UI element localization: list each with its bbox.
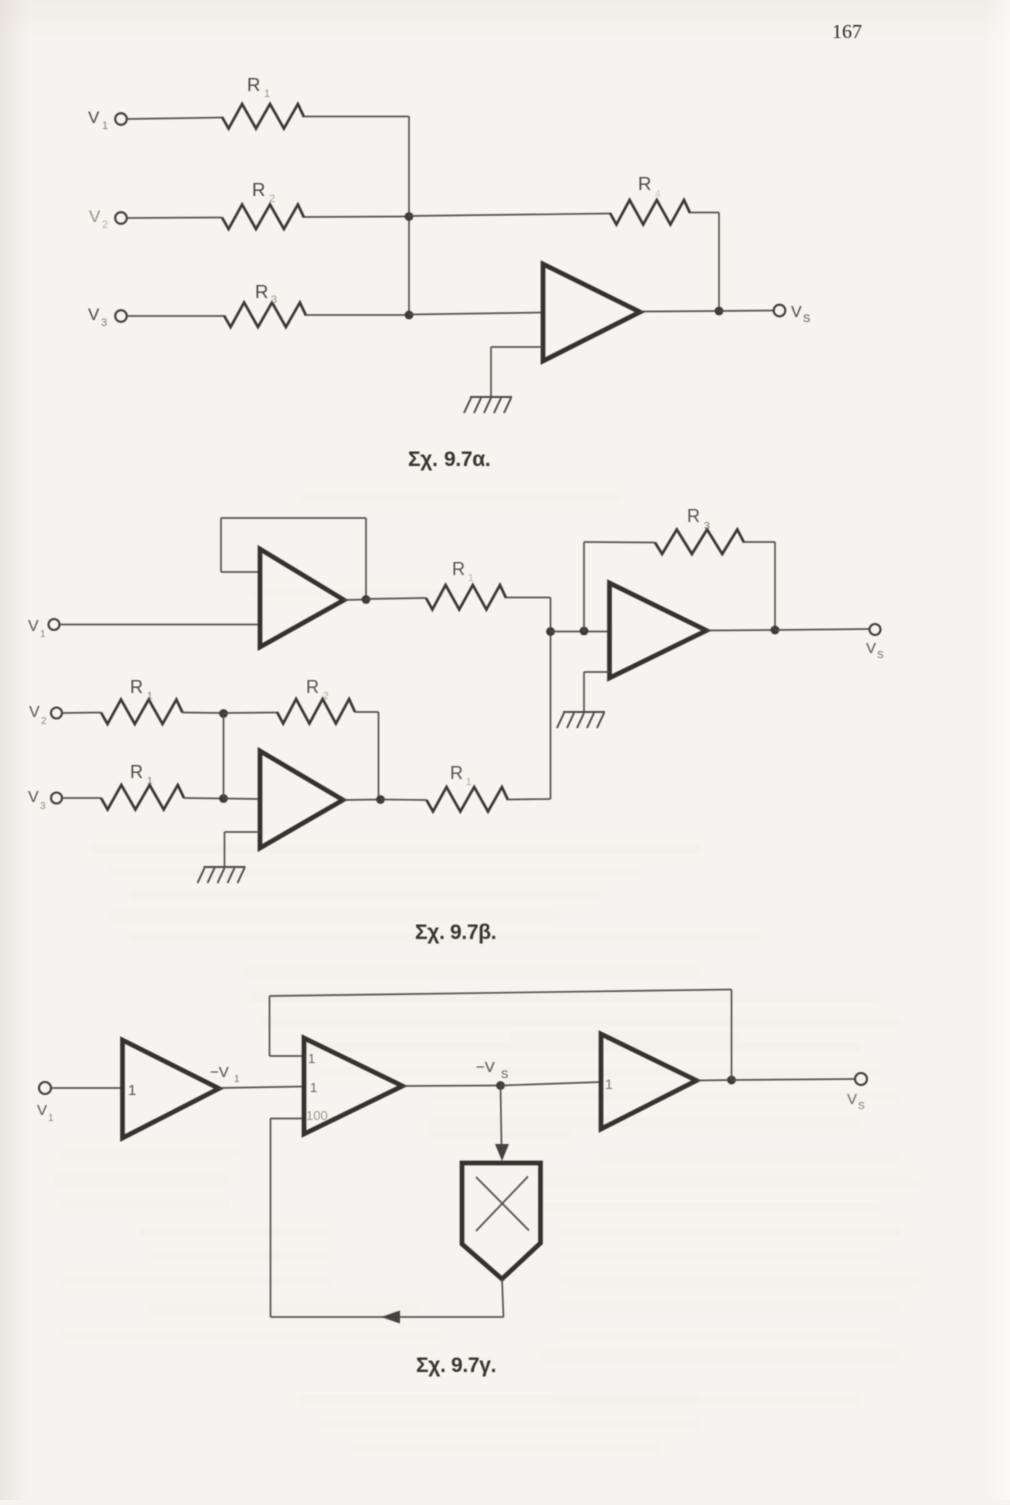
node B junction — [219, 794, 228, 803]
wire R2 to junction — [304, 216, 409, 219]
wire R1 to summing bus — [304, 116, 409, 118]
wire top feedback loop — [269, 996, 271, 1056]
svg-text:S: S — [858, 1101, 865, 1112]
wire feedback vertical to top loop — [731, 990, 733, 1081]
wire V3 to R1 — [62, 797, 101, 799]
resistor R3 — [224, 303, 306, 328]
svg-text:1: 1 — [466, 777, 472, 788]
node U2 output junction — [362, 595, 371, 604]
resistor R1 lower series — [427, 787, 509, 812]
svg-text:R: R — [130, 677, 143, 697]
amplifier A3 gain 1 — [601, 1034, 697, 1129]
arrowhead into multiplier — [495, 1144, 509, 1161]
svg-text:V: V — [89, 207, 101, 226]
node U4 output junction — [771, 626, 780, 635]
wire bottom loop stub — [271, 1118, 305, 1120]
svg-text:2: 2 — [269, 193, 275, 205]
amplifier A1 gain 1 — [123, 1040, 220, 1138]
wire V3 to R3 — [127, 315, 224, 317]
svg-text:1: 1 — [468, 573, 474, 584]
svg-text:R: R — [255, 281, 268, 302]
wire V2 to R1 — [62, 712, 101, 715]
resistor R1 (V3 input) — [101, 785, 184, 810]
op-amp U2 buffer — [260, 549, 344, 647]
svg-text:3: 3 — [704, 520, 710, 532]
resistor R3 feedback — [655, 530, 744, 555]
wire multiplier output down — [502, 1279, 504, 1317]
wire output to terminal (fig c) — [732, 1079, 856, 1080]
terminal Vs output — [774, 305, 786, 317]
wire V2 to R2 — [127, 217, 222, 220]
ground (fig b right) — [563, 711, 605, 713]
svg-text:3: 3 — [40, 801, 46, 812]
resistor R2 feedback — [277, 699, 355, 724]
svg-text:S: S — [877, 650, 884, 661]
node U4 input junction — [580, 627, 589, 636]
op-amp U4 — [610, 583, 707, 678]
svg-text:1: 1 — [264, 88, 270, 100]
wire R2 to U3 output — [355, 711, 379, 713]
svg-text:R: R — [687, 506, 700, 526]
svg-text:R: R — [452, 559, 465, 579]
terminal Vs output (fig b) — [870, 624, 881, 635]
svg-text:1: 1 — [40, 629, 46, 640]
wire ground stub U1 — [491, 346, 543, 348]
wire A1 output — [219, 1087, 304, 1089]
svg-text:4: 4 — [655, 189, 661, 200]
svg-text:R: R — [306, 677, 319, 697]
svg-text:1: 1 — [308, 1051, 315, 1066]
terminal V1 (fig b) — [49, 619, 60, 630]
svg-text:−V: −V — [476, 1059, 495, 1076]
wire node to amp A3 — [501, 1082, 602, 1086]
resistor R2 — [222, 205, 304, 230]
wire right bus vertical — [550, 598, 552, 800]
svg-text:V: V — [866, 640, 876, 657]
svg-text:V: V — [29, 704, 40, 721]
wire U3 ground stub — [225, 831, 261, 833]
wire to resistor R1 upper series — [366, 598, 426, 599]
terminal V1 (fig c) — [39, 1082, 51, 1094]
svg-text:Σχ.: Σχ. — [415, 921, 445, 944]
resistor R1 (V2 input) — [101, 700, 183, 725]
wire output to terminal — [719, 310, 773, 313]
terminal V3 (fig b) — [51, 793, 62, 804]
node right bus junction — [546, 627, 555, 636]
wire U1 output — [640, 310, 719, 313]
svg-text:2: 2 — [41, 716, 47, 727]
svg-text:9.7γ.: 9.7γ. — [451, 1354, 496, 1377]
wire R4 to output — [690, 212, 719, 214]
resistor R1 upper series — [426, 585, 506, 610]
wire R1 to node B — [184, 797, 224, 800]
terminal V1 — [115, 113, 127, 125]
multiplier block X — [462, 1163, 541, 1279]
svg-text:−V: −V — [210, 1064, 229, 1081]
ground (fig b left) — [204, 866, 246, 868]
wire V1 to amp A1 — [51, 1087, 123, 1089]
wire R1 to node A — [183, 712, 224, 715]
wire R3 to output — [744, 541, 775, 543]
wire node A to R2 — [224, 712, 278, 715]
wire U3 output — [343, 799, 381, 802]
svg-text:1: 1 — [147, 691, 153, 702]
node output junction — [715, 307, 724, 316]
svg-text:R: R — [130, 762, 143, 782]
svg-text:V: V — [37, 1102, 47, 1119]
wire U2 output — [344, 599, 366, 602]
svg-text:Σχ.: Σχ. — [416, 1354, 446, 1377]
svg-text:V: V — [88, 108, 100, 127]
op-amp U1 — [543, 264, 640, 361]
resistor R1 — [222, 104, 304, 129]
svg-text:1: 1 — [605, 1076, 613, 1092]
wire U2 feedback loop — [221, 571, 260, 573]
terminal V2 (fig b) — [51, 708, 62, 719]
svg-text:3: 3 — [101, 317, 107, 329]
wire to R3 feedback — [583, 542, 585, 631]
svg-text:1: 1 — [234, 1074, 240, 1085]
wire to resistor R1 lower series — [381, 799, 427, 802]
wire R1 lower to right bus — [508, 798, 551, 801]
svg-text:R: R — [450, 763, 463, 783]
svg-text:R: R — [247, 74, 260, 95]
wire node B to op-amp U3 — [224, 798, 261, 801]
svg-text:R: R — [252, 179, 265, 200]
terminal V2 — [115, 212, 127, 224]
ground — [470, 396, 512, 398]
wire R1 to right bus — [506, 597, 551, 599]
svg-text:2: 2 — [323, 691, 329, 702]
wire V1 to R1 — [127, 118, 222, 120]
node summing junction lower — [405, 311, 414, 320]
svg-text:167: 167 — [832, 21, 862, 43]
svg-text:V: V — [847, 1091, 857, 1108]
wire bus to op-amp U4 input — [551, 631, 610, 633]
node summing junction upper — [405, 212, 414, 221]
wire R3 to junction — [306, 314, 409, 316]
wire output to terminal (fig b) — [775, 629, 869, 630]
node -Vs junction — [496, 1081, 505, 1090]
wire bottom loop horizontal with arrow — [271, 1316, 504, 1318]
svg-text:1: 1 — [128, 1082, 136, 1099]
svg-text:1: 1 — [310, 1080, 317, 1095]
svg-text:3: 3 — [271, 294, 277, 306]
svg-text:R: R — [638, 173, 651, 194]
svg-text:V: V — [791, 304, 802, 321]
wire junction to op-amp U1 input — [409, 313, 543, 315]
svg-text:1: 1 — [147, 776, 153, 787]
svg-text:S: S — [501, 1069, 508, 1081]
wire summing bus vertical — [408, 117, 410, 316]
svg-text:2: 2 — [102, 219, 108, 231]
wire V1 to buffer U2 — [60, 624, 260, 626]
svg-text:9.7α.: 9.7α. — [444, 448, 490, 471]
wire junction to R4 — [409, 214, 610, 217]
svg-text:V: V — [28, 618, 39, 635]
arrowhead bottom loop — [381, 1311, 400, 1324]
wire node A to node B — [223, 714, 225, 799]
svg-text:V: V — [28, 789, 39, 806]
svg-text:Σχ.: Σχ. — [408, 448, 438, 471]
amplifier A2 gains 1 1 100 — [304, 1038, 403, 1134]
terminal Vs output (fig c) — [855, 1073, 867, 1085]
svg-text:S: S — [803, 313, 810, 325]
resistor R4 feedback — [610, 200, 690, 225]
wire A3 output — [697, 1079, 732, 1082]
svg-text:1: 1 — [102, 120, 108, 132]
wire node to multiplier with arrow — [501, 1086, 502, 1147]
op-amp U3 — [260, 751, 343, 848]
svg-text:1: 1 — [48, 1113, 54, 1124]
svg-text:9.7β.: 9.7β. — [450, 921, 496, 944]
svg-text:100: 100 — [306, 1108, 328, 1123]
terminal V3 — [115, 310, 127, 322]
svg-text:V: V — [88, 305, 100, 324]
node U3 output junction — [376, 795, 385, 804]
node A3 output junction — [727, 1076, 736, 1085]
wire U4 ground stub — [584, 671, 610, 673]
wire U4 output — [707, 629, 776, 632]
node A junction — [219, 709, 228, 718]
wire A2 output — [403, 1085, 501, 1088]
